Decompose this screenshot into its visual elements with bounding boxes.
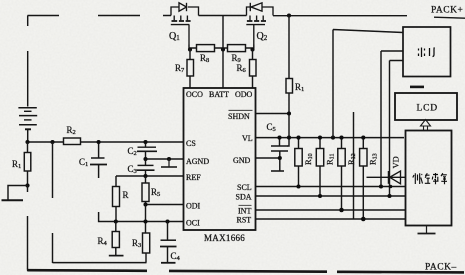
resistor R11 [316,138,323,196]
svg-text:VL: VL [242,134,253,143]
svg-text:AGND: AGND [186,157,209,166]
svg-text:GND: GND [233,156,251,165]
node RST R13 [361,217,366,222]
node OCI C4 junction [165,219,169,223]
ground left [2,186,28,201]
svg-text:SHDN: SHDN [228,112,250,121]
node SCL R10 [296,184,300,188]
wire left bottom corner [27,269,29,272]
svg-text:RST: RST [237,216,252,225]
pin SHDN [228,110,253,121]
wire OCI row [99,218,184,222]
wire SHDN [256,113,290,115]
node AGND C junction [143,157,147,161]
svg-text:ODI: ODI [186,202,201,211]
svg-text:INT: INT [238,207,251,216]
wire riser B keypad [381,51,403,187]
wire top positive rail [28,16,465,19]
resistor R1 left [24,142,31,186]
capacitor C2 [137,142,157,159]
capacitor C5 [271,138,288,171]
wire riser D keypad [353,112,355,219]
wire ODI row [146,204,184,206]
node VL R12 [339,136,343,140]
node OCI R3 crossing [143,219,147,223]
transistor Q1 body diode [171,3,199,16]
resistor R10 [295,138,302,187]
svg-text:SCL: SCL [237,183,252,192]
keypad box [403,27,451,77]
svg-text:LCD: LCD [417,104,438,114]
wire gate row [189,45,254,49]
transistor Q2 body diode [247,3,274,16]
resistor R6 [250,50,257,89]
capacitor C3 [137,159,155,176]
svg-text:VD: VD [391,156,401,168]
svg-text:ODO: ODO [235,90,253,99]
node REF junction [143,174,147,178]
wire bottom sub rail [53,262,147,264]
wire left ground column [52,142,54,263]
svg-text:BATT: BATT [209,90,229,99]
svg-text:PACK+: PACK+ [431,6,463,16]
node SCL riser C crossing [389,185,393,189]
node left column tap [50,140,54,144]
svg-text:MAX1666: MAX1666 [204,233,245,243]
node Q2 gate junction [250,47,254,51]
svg-text:OCO: OCO [186,90,203,99]
node VL R13 [361,136,365,140]
wire left column to bottom rail [27,186,29,270]
capacitor C4 [160,222,177,263]
node R1 foot [25,183,29,187]
wire RST row [256,218,406,220]
resistor R3 [143,233,150,263]
resistor R1 right [286,79,293,94]
svg-text:R: R [123,190,129,200]
node C2 top [143,140,147,144]
node Q1 gate junction [188,47,192,51]
wire riser A keypad [333,30,403,138]
resistor R13 [360,138,367,219]
node OCI junction [114,219,118,223]
svg-text:OCI: OCI [186,219,200,228]
wire INT row [256,209,406,211]
node SDA R11 [318,194,322,198]
node SDA riser C [387,194,391,198]
svg-text:SDA: SDA [236,193,252,202]
node rail-R1 junction [287,13,291,17]
wire VL row [256,137,405,139]
label microcontroller text [413,173,447,184]
resistor R [113,176,120,222]
pin INT [238,205,252,215]
arrow MCU to LCD [421,120,431,131]
diode VD [367,171,406,184]
node battery bottom [25,140,29,144]
ground MCU [418,226,436,234]
resistor R4 [109,222,124,256]
battery B [18,16,37,143]
transistor Q2 channel and gate [246,16,266,45]
resistor R5 [142,176,149,205]
svg-text:CS: CS [186,139,196,148]
label keypad text [419,48,435,58]
wire bottom PACK- rail [28,270,465,272]
capacitor C1 [90,142,107,218]
wire R5 to R3 column [145,205,147,234]
resistor R9 [228,45,246,52]
wire GND row [256,157,281,159]
node SHDN junction [287,111,291,115]
LCD box [395,93,457,120]
resistor R7 [187,50,194,89]
resistor R12 [338,138,345,210]
ground tick AGND [161,159,177,167]
node C1 top [97,140,101,144]
wire REF row [116,175,184,177]
op-amp U1 MAX1666 box [184,88,256,230]
transistor Q1 channel and gate [171,16,191,45]
node SCL riser B [379,184,383,188]
svg-text:REF: REF [186,173,201,182]
node VL R11 [318,136,322,140]
node VL R1 junction [287,136,291,140]
resistor R2 [64,138,81,145]
resistor R8 [197,45,215,52]
node VL C5 junction [277,136,281,140]
wire BATT pin [222,16,224,89]
node ODI junction [143,202,147,206]
wire riser C keypad [390,61,404,197]
wire keypad to LCD stub [410,86,424,89]
node BATT junction [221,47,225,51]
microcontroller box [406,131,452,226]
wire CS row [28,141,184,143]
node VL riser A [331,136,335,140]
wire SCL row [256,186,406,188]
node INT R12 [339,208,344,213]
wire SDA row [256,195,406,197]
node GND C5 junction [278,156,282,160]
ground tick GND [271,170,284,172]
wire R1 pullup column [288,16,290,147]
wire AGND row [146,158,184,160]
node VL R10 [296,136,300,140]
node AGND tick junction [167,157,171,161]
